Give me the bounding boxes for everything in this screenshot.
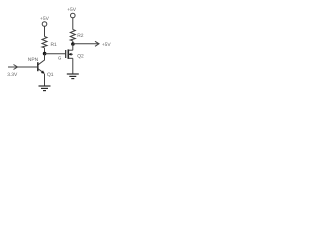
power +5V symbol circle (left supply) <box>42 22 47 27</box>
wire: Q2 source to ground <box>72 58 74 74</box>
mosfet Q2 gate bar <box>65 50 67 58</box>
mosfet Q2 body arrow (points to channel) <box>68 53 73 55</box>
svg-text:+5V: +5V <box>67 7 77 13</box>
output pin wire +5V <box>73 43 99 45</box>
transistor Q1 emitter with arrow <box>38 69 44 73</box>
wire: node B to Q2 drain <box>72 44 74 50</box>
resistor R1 <box>42 37 47 48</box>
input pin wire 3.3V <box>8 66 38 68</box>
transistor Q1 base bar <box>37 62 39 71</box>
power +5V symbol circle (right supply) <box>71 13 76 18</box>
wire: R2 to node B <box>72 41 74 44</box>
mosfet Q2 drain stub <box>68 49 73 51</box>
svg-text:3.3V: 3.3V <box>7 72 18 78</box>
node B (junction dot, drain/output) <box>71 42 75 46</box>
wire: R1 to node A <box>44 48 46 54</box>
node A (junction dot, collector/gate) <box>43 52 47 56</box>
svg-text:Q1: Q1 <box>47 72 54 78</box>
wire: right supply to R2 <box>72 18 74 30</box>
svg-text:+5V: +5V <box>102 42 112 48</box>
svg-text:Q2: Q2 <box>77 53 84 59</box>
input pin arrowhead <box>14 65 18 70</box>
mosfet Q2 channel bar <box>67 49 69 59</box>
mosfet Q2 source stub <box>68 57 73 59</box>
svg-text:+5V: +5V <box>40 16 50 22</box>
svg-text:NPN: NPN <box>28 57 39 63</box>
svg-text:R1: R1 <box>51 42 58 48</box>
ground (Q1 emitter) <box>39 85 51 87</box>
wire: left supply to R1 <box>44 26 46 36</box>
resistor R2 <box>70 30 75 41</box>
wire: Q1 emitter to ground <box>44 74 46 86</box>
output pin arrowhead <box>95 41 99 46</box>
ground (Q2 source) <box>67 73 79 75</box>
transistor Q1 (NPN) collector wire <box>38 54 44 65</box>
wire: node A to Q2 gate <box>45 53 66 55</box>
svg-text:R2: R2 <box>77 33 84 39</box>
